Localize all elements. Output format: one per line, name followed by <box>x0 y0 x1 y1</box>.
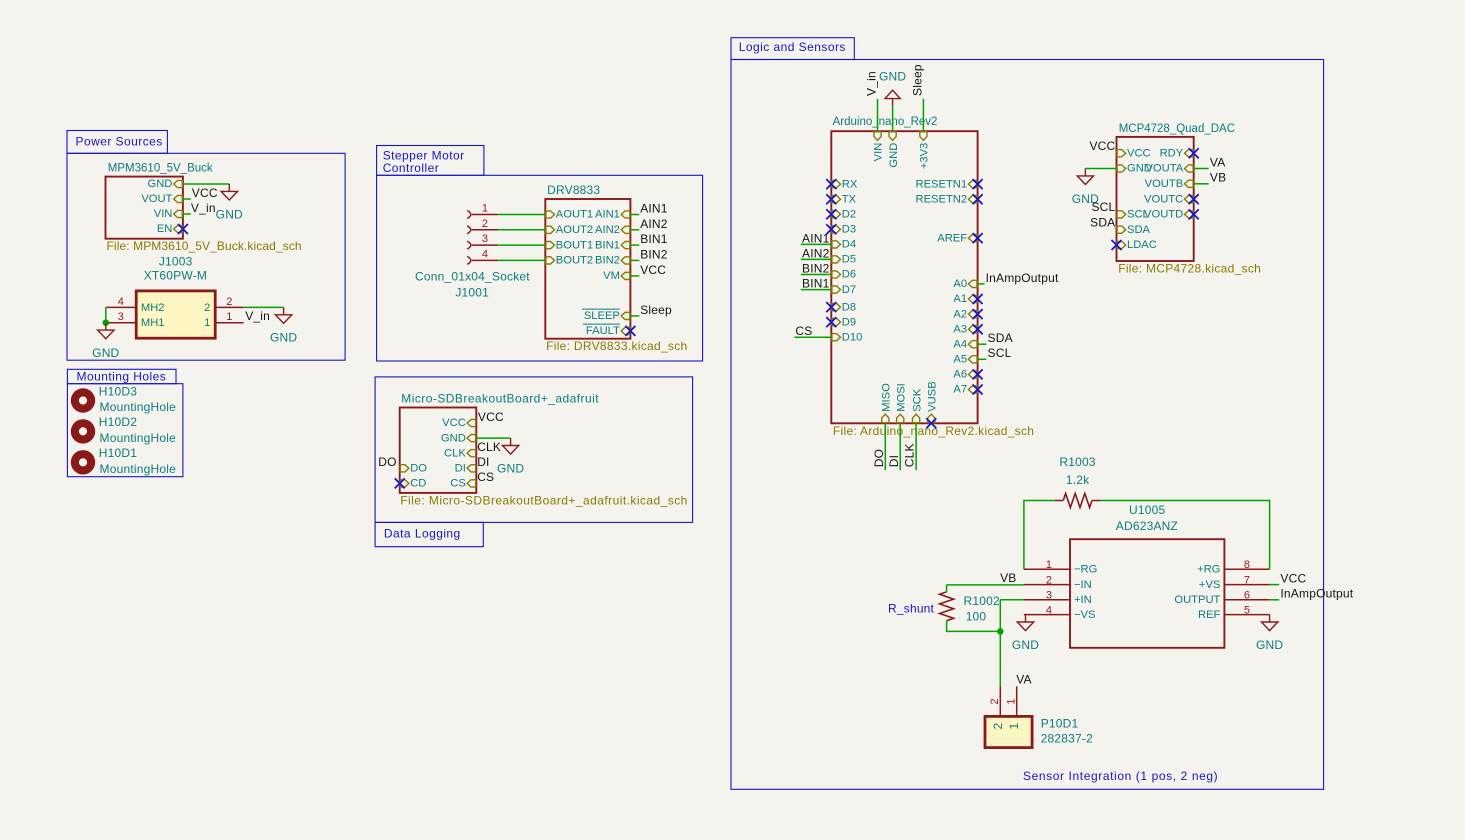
no-connect RESETN1 <box>973 179 983 189</box>
no-connect TX <box>826 194 836 204</box>
sheet pin BIN2 <box>621 257 630 264</box>
svg-text:InAmpOutput: InAmpOutput <box>986 271 1059 285</box>
svg-text:V_in: V_in <box>191 201 216 215</box>
sheet pin RESETN2 <box>968 196 977 203</box>
sheet pin D6 <box>832 271 841 278</box>
pin 3 MH1 <box>106 322 136 324</box>
pin 4 MH2 <box>106 306 136 308</box>
svg-text:GND: GND <box>148 178 173 190</box>
svg-text:VCC: VCC <box>442 417 466 429</box>
sheet pin VM <box>621 272 630 279</box>
svg-text:+IN: +IN <box>1074 594 1092 606</box>
pin 4 J1001 <box>467 256 471 264</box>
pin 8 +RG <box>1224 568 1269 570</box>
sheet pin CS <box>467 480 476 487</box>
svg-text:3: 3 <box>118 311 124 323</box>
svg-text:2: 2 <box>226 296 232 308</box>
pin 7 +VS <box>1224 584 1269 586</box>
sheet pin VOUTC <box>1185 196 1194 203</box>
svg-text:V_in: V_in <box>245 309 270 323</box>
pin 5 REF <box>1224 614 1269 616</box>
svg-text:SDA: SDA <box>1127 224 1151 236</box>
connector J1003 XT60PW-M body <box>136 291 215 338</box>
sheet pin A5 <box>968 356 977 363</box>
svg-text:−RG: −RG <box>1074 563 1097 575</box>
svg-text:DO: DO <box>872 449 886 467</box>
no-connect A2 <box>973 309 983 319</box>
no-connect LDAC <box>1112 240 1122 250</box>
sheet pin A1 <box>968 295 977 302</box>
wire AIN2 to Arduino <box>801 258 831 260</box>
sheet pin D4 <box>832 241 841 248</box>
sheet pin RX <box>832 181 841 188</box>
svg-text:GND: GND <box>441 432 466 444</box>
wire Sleep stub <box>630 315 639 317</box>
sheet pin D8 <box>832 304 841 311</box>
svg-text:D7: D7 <box>842 284 856 296</box>
svg-text:RX: RX <box>842 178 858 190</box>
wire AIN1 to Arduino <box>801 243 831 245</box>
sheet pin VIN <box>174 210 183 217</box>
svg-text:D6: D6 <box>842 269 856 281</box>
section box Logic and Sensors <box>731 38 854 60</box>
svg-text:A7: A7 <box>953 384 967 396</box>
svg-text:7: 7 <box>1244 574 1250 586</box>
svg-text:VCC: VCC <box>640 263 666 277</box>
sheet pin BOUT1 <box>546 242 555 249</box>
no-connect VUSB <box>926 418 936 428</box>
svg-text:VCC: VCC <box>1127 147 1151 159</box>
svg-text:VCC: VCC <box>192 186 218 200</box>
sheet pin D5 <box>832 256 841 263</box>
wire VOUT stub <box>183 198 191 200</box>
sheet pin D2 <box>832 211 841 218</box>
svg-text:GND: GND <box>1012 638 1039 652</box>
svg-text:DO: DO <box>378 455 396 469</box>
svg-text:D5: D5 <box>842 254 856 266</box>
svg-text:CS: CS <box>450 478 466 490</box>
wire +IN down to junction and P10D1 <box>999 600 1001 687</box>
svg-text:VUSB: VUSB <box>927 381 939 411</box>
sheet pin GND <box>174 180 183 187</box>
sheet pin RESETN1 <box>968 181 977 188</box>
svg-text:AIN2: AIN2 <box>640 217 668 231</box>
svg-text:File: Micro-SDBreakoutBoard+_a: File: Micro-SDBreakoutBoard+_adafruit.ki… <box>400 493 688 507</box>
sheet pin A0 <box>968 280 977 287</box>
wire feedback right <box>1101 501 1270 570</box>
sheet Micro-SDBreakoutBoard+_adafruit <box>400 408 477 493</box>
sheet pin DO <box>400 465 409 472</box>
svg-text:+RG: +RG <box>1197 563 1220 575</box>
sheet pin CD <box>400 480 409 487</box>
svg-text:VM: VM <box>603 270 620 282</box>
svg-text:CS: CS <box>477 470 494 484</box>
junction below R1002 <box>997 628 1004 635</box>
svg-text:CLK: CLK <box>477 440 501 454</box>
wire VOUTB stub <box>1194 183 1209 185</box>
wire CS to D10 <box>794 336 831 338</box>
svg-text:282837-2: 282837-2 <box>1041 731 1093 745</box>
no-connect D9 <box>826 317 836 327</box>
wire pin4 to pin3 junction <box>105 307 107 322</box>
svg-text:D10: D10 <box>842 331 863 343</box>
svg-text:+VS: +VS <box>1199 579 1220 591</box>
svg-text:TX: TX <box>842 193 857 205</box>
power symbol GND inverted (Arduino top) <box>885 90 900 106</box>
svg-text:MH1: MH1 <box>141 317 165 329</box>
svg-text:Controller: Controller <box>383 161 440 175</box>
svg-text:SLEEP: SLEEP <box>584 310 620 322</box>
svg-text:1.2k: 1.2k <box>1066 473 1090 487</box>
svg-text:100: 100 <box>966 609 987 623</box>
svg-text:BOUT1: BOUT1 <box>556 239 593 251</box>
svg-text:U1005: U1005 <box>1129 503 1165 517</box>
svg-text:RESETN2: RESETN2 <box>915 193 967 205</box>
sheet Arduino_nano_Rev2 <box>831 131 977 423</box>
wire VCC stub (+VS) <box>1270 584 1280 586</box>
resistor R1003 <box>1063 494 1092 508</box>
svg-text:BIN1: BIN1 <box>640 232 668 246</box>
svg-text:BOUT2: BOUT2 <box>556 255 593 267</box>
no-connect A3 <box>973 324 983 334</box>
no-connect A6 <box>973 369 983 379</box>
no-connect CD <box>395 478 405 488</box>
pin 1 J1001 <box>467 211 471 219</box>
section box Power Sources <box>67 131 167 154</box>
svg-text:VIN: VIN <box>873 143 885 162</box>
svg-text:A4: A4 <box>953 338 967 350</box>
svg-text:SDA: SDA <box>988 331 1013 345</box>
pin 1 −RG <box>1024 568 1070 570</box>
svg-text:GND: GND <box>888 143 900 168</box>
svg-text:File: MCP4728.kicad_sch: File: MCP4728.kicad_sch <box>1118 262 1261 276</box>
svg-text:1: 1 <box>226 311 232 323</box>
svg-text:MPM3610_5V_Buck: MPM3610_5V_Buck <box>108 163 213 175</box>
svg-text:FAULT: FAULT <box>586 325 620 337</box>
svg-text:GND: GND <box>216 207 243 221</box>
svg-text:6: 6 <box>1244 590 1250 602</box>
svg-text:1: 1 <box>1005 698 1017 704</box>
sheet pin SCK <box>913 414 920 423</box>
ground symbol GND (XT60 left) <box>98 323 114 339</box>
sheet pin SCL <box>1117 211 1126 218</box>
sheet pin LDAC <box>1117 241 1126 248</box>
mounting hole H10D1 <box>71 450 95 474</box>
svg-text:MCP4728_Quad_DAC: MCP4728_Quad_DAC <box>1119 123 1235 135</box>
wire R1002 bottom to junction <box>947 629 1001 631</box>
sheet pin GND <box>889 132 896 141</box>
ground symbol GND (MCP) <box>1077 169 1093 185</box>
wire GND to ground <box>183 183 229 185</box>
wire BIN2 stub <box>630 259 639 261</box>
section box Stepper Motor Controller <box>377 146 484 176</box>
wire GND to ground (MCP) <box>1085 168 1116 170</box>
svg-text:Sleep: Sleep <box>640 303 672 317</box>
no-connect D8 <box>826 302 836 312</box>
svg-text:GND: GND <box>497 461 524 475</box>
svg-text:VOUTA: VOUTA <box>1145 163 1183 175</box>
no-connect A7 <box>973 385 983 395</box>
wire BIN2 to Arduino <box>801 274 831 276</box>
svg-text:SCL: SCL <box>1091 200 1115 214</box>
svg-text:D2: D2 <box>842 208 856 220</box>
svg-text:CD: CD <box>410 478 426 490</box>
wire CLK down <box>915 423 917 470</box>
section box Mounting Holes <box>67 369 176 383</box>
svg-text:D9: D9 <box>842 316 856 328</box>
svg-text:R1002: R1002 <box>964 594 1000 608</box>
no-connect D3 <box>826 224 836 234</box>
sheet pin GND <box>467 435 476 442</box>
sheet pin D7 <box>832 286 841 293</box>
svg-text:4: 4 <box>482 248 488 260</box>
svg-text:R1003: R1003 <box>1059 455 1095 469</box>
wire +IN horizontal <box>1000 599 1024 601</box>
svg-text:RESETN1: RESETN1 <box>915 178 967 190</box>
svg-text:Arduino_nano_Rev2: Arduino_nano_Rev2 <box>833 116 938 128</box>
wire V_in to VIN <box>877 99 879 131</box>
pin 1 <box>215 322 243 324</box>
svg-text:Logic and Sensors: Logic and Sensors <box>739 40 846 54</box>
ground symbol GND (REF) <box>1261 615 1277 631</box>
wire VIN stub <box>183 213 191 215</box>
connector P10D1 282837-2 body <box>985 716 1032 747</box>
wire VB net to -IN <box>947 584 1024 586</box>
svg-text:XT60PW-M: XT60PW-M <box>144 268 207 282</box>
svg-text:R_shunt: R_shunt <box>888 602 935 616</box>
wire J1001 pin 1 to DRV8833 <box>498 214 545 216</box>
svg-text:EN: EN <box>157 223 173 235</box>
svg-text:D3: D3 <box>842 224 856 236</box>
ground symbol GND (XT60 right) <box>275 307 291 323</box>
svg-text:Conn_01x04_Socket: Conn_01x04_Socket <box>415 270 530 284</box>
sheet pin D9 <box>832 319 841 326</box>
pin 2 J1001 <box>467 226 471 234</box>
mounting hole H10D3 <box>71 388 95 412</box>
sheet pin FAULT <box>621 327 630 334</box>
svg-text:D4: D4 <box>842 239 856 251</box>
svg-text:OUTPUT: OUTPUT <box>1174 594 1220 606</box>
sheet pin BIN1 <box>621 242 630 249</box>
no-connect AREF <box>973 233 983 243</box>
wire J1001 pin 3 to DRV8833 <box>498 244 545 246</box>
svg-text:H10D1: H10D1 <box>99 446 137 460</box>
svg-text:VOUTD: VOUTD <box>1144 209 1183 221</box>
pin 1 P10D1 <box>1016 686 1018 716</box>
svg-text:MountingHole: MountingHole <box>100 462 177 476</box>
junction at MH1 <box>103 319 110 326</box>
svg-text:BIN2: BIN2 <box>595 255 620 267</box>
sheet pin AOUT1 <box>546 211 555 218</box>
svg-text:D8: D8 <box>842 301 856 313</box>
svg-text:AOUT2: AOUT2 <box>556 224 593 236</box>
sheet pin AIN2 <box>621 226 630 233</box>
svg-text:AD623ANZ: AD623ANZ <box>1116 519 1178 533</box>
svg-text:RDY: RDY <box>1160 147 1184 159</box>
sheet pin EN <box>174 225 183 232</box>
wire GND power to GND pin <box>892 106 894 131</box>
sheet pin AREF <box>968 235 977 242</box>
svg-text:1: 1 <box>1046 559 1052 571</box>
svg-text:DO: DO <box>410 463 427 475</box>
wire A0 stub <box>978 283 985 285</box>
svg-text:J1003: J1003 <box>159 255 193 269</box>
svg-text:CLK: CLK <box>444 447 466 459</box>
svg-text:VB: VB <box>1000 571 1016 585</box>
svg-text:3: 3 <box>1046 590 1052 602</box>
svg-text:CS: CS <box>795 324 812 338</box>
wire GND to ground (SD) <box>476 437 510 439</box>
svg-text:3: 3 <box>482 233 488 245</box>
svg-text:LDAC: LDAC <box>1127 239 1157 251</box>
svg-text:AIN1: AIN1 <box>802 231 830 245</box>
op-amp U1005 AD623ANZ body <box>1070 539 1224 648</box>
sheet pin VIN <box>874 132 881 141</box>
wire AIN1 stub <box>630 214 639 216</box>
wire DO down <box>884 423 886 470</box>
svg-text:4: 4 <box>118 296 124 308</box>
svg-text:File: MPM3610_5V_Buck.kicad_sc: File: MPM3610_5V_Buck.kicad_sch <box>107 239 302 253</box>
sheet pin VOUTB <box>1185 180 1194 187</box>
pin 6 OUTPUT <box>1224 599 1269 601</box>
sheet pin VCC <box>1117 150 1126 157</box>
svg-text:1: 1 <box>204 317 210 329</box>
wire VOUTA stub <box>1194 168 1209 170</box>
sheet pin DI <box>467 465 476 472</box>
svg-text:VCC: VCC <box>478 410 504 424</box>
sheet pin D3 <box>832 226 841 233</box>
svg-text:VCC: VCC <box>1280 571 1306 585</box>
svg-text:Mounting Holes: Mounting Holes <box>77 370 167 384</box>
svg-text:Data Logging: Data Logging <box>384 526 461 540</box>
wire feedback left <box>1024 501 1055 570</box>
wire DI down <box>899 423 901 470</box>
svg-text:J1001: J1001 <box>455 286 489 300</box>
svg-text:2: 2 <box>989 698 1001 704</box>
svg-text:VB: VB <box>1210 171 1226 185</box>
svg-text:MH2: MH2 <box>141 302 165 314</box>
sheet pin BOUT2 <box>546 257 555 264</box>
svg-text:2: 2 <box>482 218 488 230</box>
sheet MCP4728_Quad_DAC <box>1117 137 1194 261</box>
svg-text:VA: VA <box>1210 155 1226 169</box>
svg-text:AOUT1: AOUT1 <box>556 209 593 221</box>
sheet DRV8833 <box>545 199 630 339</box>
svg-text:AIN2: AIN2 <box>595 224 620 236</box>
sheet pin MISO <box>882 414 889 423</box>
svg-text:GND: GND <box>879 69 906 83</box>
pin 2 −IN <box>1024 584 1070 586</box>
resistor R1002 R_shunt <box>940 592 954 621</box>
sheet pin A6 <box>968 371 977 378</box>
svg-text:DI: DI <box>477 455 489 469</box>
svg-text:V_in: V_in <box>865 71 879 96</box>
svg-text:A6: A6 <box>953 369 967 381</box>
svg-text:VA: VA <box>1016 672 1032 686</box>
wire AIN2 stub <box>630 229 639 231</box>
pin 2 P10D1 <box>999 686 1001 716</box>
svg-text:−VS: −VS <box>1074 609 1095 621</box>
mounting hole H10D2 <box>71 419 95 443</box>
sheet pin SDA <box>1117 226 1126 233</box>
ground symbol GND (MPM3610) <box>221 184 237 200</box>
svg-text:InAmpOutput: InAmpOutput <box>1280 587 1353 601</box>
svg-text:CLK: CLK <box>903 443 917 467</box>
svg-text:AIN1: AIN1 <box>595 209 620 221</box>
wire BIN1 to Arduino <box>801 289 831 291</box>
section box Data Logging <box>375 377 692 523</box>
svg-text:GND: GND <box>92 346 119 360</box>
svg-text:1: 1 <box>482 203 488 215</box>
svg-text:BIN1: BIN1 <box>802 277 830 291</box>
svg-text:2: 2 <box>1046 574 1052 586</box>
svg-text:BIN2: BIN2 <box>802 261 830 275</box>
svg-text:8: 8 <box>1244 559 1250 571</box>
no-connect RESETN2 <box>973 194 983 204</box>
sheet pin GND <box>1117 165 1126 172</box>
svg-text:VOUTB: VOUTB <box>1145 178 1184 190</box>
pin 4 −VS <box>1024 614 1070 616</box>
svg-text:VCC: VCC <box>1089 139 1115 153</box>
svg-text:2: 2 <box>991 722 1005 729</box>
svg-text:H10D2: H10D2 <box>99 415 137 429</box>
pin 3 +IN <box>1024 599 1070 601</box>
svg-text:DI: DI <box>887 455 901 467</box>
svg-text:Power Sources: Power Sources <box>76 134 163 148</box>
svg-text:SCK: SCK <box>911 388 923 412</box>
no-connect VOUTD <box>1189 209 1199 219</box>
sheet pin VUSB <box>928 414 935 423</box>
sheet pin TX <box>832 196 841 203</box>
svg-text:A2: A2 <box>953 308 967 320</box>
svg-text:VIN: VIN <box>154 208 173 220</box>
svg-text:AIN2: AIN2 <box>802 246 830 260</box>
svg-text:+3V3: +3V3 <box>919 143 931 169</box>
sheet pin RDY <box>1185 150 1194 157</box>
svg-text:H10D3: H10D3 <box>99 384 137 398</box>
sheet pin VCC <box>467 419 476 426</box>
sheet pin D10 <box>832 334 841 341</box>
svg-text:Micro-SDBreakoutBoard+_adafrui: Micro-SDBreakoutBoard+_adafruit <box>401 392 599 406</box>
svg-text:A1: A1 <box>953 293 967 305</box>
svg-text:−IN: −IN <box>1074 579 1092 591</box>
no-connect A1 <box>973 294 983 304</box>
sheet pin SLEEP <box>621 312 630 319</box>
wire Sleep to +3V3 <box>922 99 924 131</box>
svg-text:VOUT: VOUT <box>141 193 172 205</box>
no-connect D2 <box>826 209 836 219</box>
no-connect FAULT <box>625 326 635 336</box>
sheet pin A7 <box>968 386 977 393</box>
svg-text:BIN1: BIN1 <box>595 239 620 251</box>
sheet pin CLK <box>467 450 476 457</box>
ground symbol GND (SD) <box>502 438 518 454</box>
svg-text:A5: A5 <box>953 354 967 366</box>
wire BIN1 stub <box>630 244 639 246</box>
svg-text:SCL: SCL <box>988 346 1012 360</box>
sheet pin A3 <box>968 326 977 333</box>
svg-text:1: 1 <box>1007 722 1021 729</box>
sheet pin A2 <box>968 311 977 318</box>
wire pin2 to ground <box>244 306 284 308</box>
svg-text:GND: GND <box>270 331 297 345</box>
sheet pin A4 <box>968 341 977 348</box>
sheet pin AIN1 <box>621 211 630 218</box>
wire InAmpOutput stub (OUTPUT) <box>1270 599 1280 601</box>
svg-text:GND: GND <box>1256 638 1283 652</box>
svg-text:MISO: MISO <box>881 383 893 412</box>
svg-text:Sleep: Sleep <box>911 64 925 96</box>
